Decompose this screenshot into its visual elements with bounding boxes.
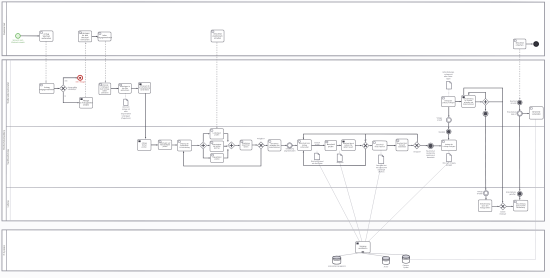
svg-text:Leitung vorlegen: Leitung vorlegen bbox=[443, 145, 456, 148]
svg-text:IT-Systeme: IT-Systeme bbox=[3, 244, 6, 255]
svg-text:Sachbearbeitung: Sachbearbeitung bbox=[7, 149, 10, 164]
svg-text:Versand?: Versand? bbox=[413, 150, 420, 153]
svg-text:Bescheid zum: Bescheid zum bbox=[397, 143, 408, 145]
svg-text:Studierende/r: Studierende/r bbox=[3, 22, 6, 35]
svg-text:erhalten: erhalten bbox=[214, 37, 221, 40]
svg-text:ok?: ok? bbox=[364, 140, 367, 142]
svg-text:vorbereiten: vorbereiten bbox=[300, 146, 309, 149]
svg-text:zusammen-: zusammen- bbox=[242, 145, 251, 147]
svg-text:ja: ja bbox=[64, 95, 66, 97]
svg-text:Bescheid: Bescheid bbox=[337, 162, 344, 164]
svg-text:(ECTS): (ECTS) bbox=[214, 148, 220, 150]
svg-text:prüfen: prüfen bbox=[142, 145, 147, 148]
svg-text:Bescheid final: Bescheid final bbox=[376, 165, 387, 167]
svg-text:und Siegel: und Siegel bbox=[378, 169, 386, 171]
svg-text:versenden: versenden bbox=[532, 113, 541, 116]
svg-text:Freigabe?: Freigabe? bbox=[257, 137, 265, 140]
svg-text:aufnehmen: aufnehmen bbox=[121, 90, 130, 92]
svg-text:Prüfung der: Prüfung der bbox=[180, 143, 189, 145]
svg-text:prüfen: prüfen bbox=[328, 145, 333, 148]
svg-text:(Papierform): (Papierform) bbox=[121, 117, 131, 120]
svg-text:geben lassen: geben lassen bbox=[344, 146, 354, 148]
svg-text:führen: führen bbox=[244, 146, 249, 148]
svg-text:prüfen: prüfen bbox=[214, 133, 219, 136]
svg-text:entgegennehmen: entgegennehmen bbox=[97, 36, 112, 39]
svg-text:Leitung: Leitung bbox=[7, 201, 10, 208]
svg-text:final erstellen: final erstellen bbox=[375, 145, 385, 148]
svg-text:Hochschulverwaltung: Hochschulverwaltung bbox=[3, 129, 6, 150]
svg-text:anfordern: anfordern bbox=[101, 91, 108, 94]
svg-text:einsehen: einsehen bbox=[516, 45, 524, 47]
svg-text:Prüfung?: Prüfung? bbox=[500, 213, 507, 215]
svg-text:einreichen: einreichen bbox=[81, 38, 90, 41]
svg-text:Campus-: Campus- bbox=[403, 265, 410, 267]
svg-text:Ergebnisse: Ergebnisse bbox=[242, 143, 250, 145]
svg-text:senden: senden bbox=[83, 105, 89, 107]
svg-text:Antrag treffen: Antrag treffen bbox=[480, 206, 490, 209]
svg-text:Versand: Versand bbox=[399, 145, 405, 147]
svg-text:Bescheid: Bescheid bbox=[510, 101, 517, 103]
svg-text:Vorlage: Vorlage bbox=[437, 117, 443, 119]
svg-text:prüfen: prüfen bbox=[163, 146, 168, 148]
svg-text:Studierendensekretariat: Studierendensekretariat bbox=[7, 82, 10, 104]
svg-text:Leitung vorlegen: Leitung vorlegen bbox=[442, 101, 455, 104]
svg-text:weiterleiten: weiterleiten bbox=[140, 88, 149, 91]
svg-text:Bescheid an: Bescheid an bbox=[426, 151, 435, 153]
svg-text:Wechsel entsteht: Wechsel entsteht bbox=[11, 41, 25, 44]
svg-text:Zulassungs-: Zulassungs- bbox=[180, 145, 189, 147]
svg-text:lagen: lagen bbox=[446, 78, 450, 80]
svg-text:abgeschlossen: abgeschlossen bbox=[284, 150, 295, 152]
svg-text:zurück an die: zurück an die bbox=[516, 205, 526, 207]
svg-text:entgegennehmen: entgegennehmen bbox=[39, 88, 54, 91]
svg-text:erfassen und: erfassen und bbox=[464, 102, 473, 104]
svg-text:archivieren: archivieren bbox=[358, 248, 367, 250]
svg-text:prüfen: prüfen bbox=[215, 158, 220, 161]
svg-text:vorbereiten: vorbereiten bbox=[42, 37, 51, 40]
svg-text:Vorlage: Vorlage bbox=[477, 191, 483, 193]
svg-text:Bescheid durch: Bescheid durch bbox=[343, 143, 354, 145]
svg-text:nein: nein bbox=[65, 80, 68, 82]
